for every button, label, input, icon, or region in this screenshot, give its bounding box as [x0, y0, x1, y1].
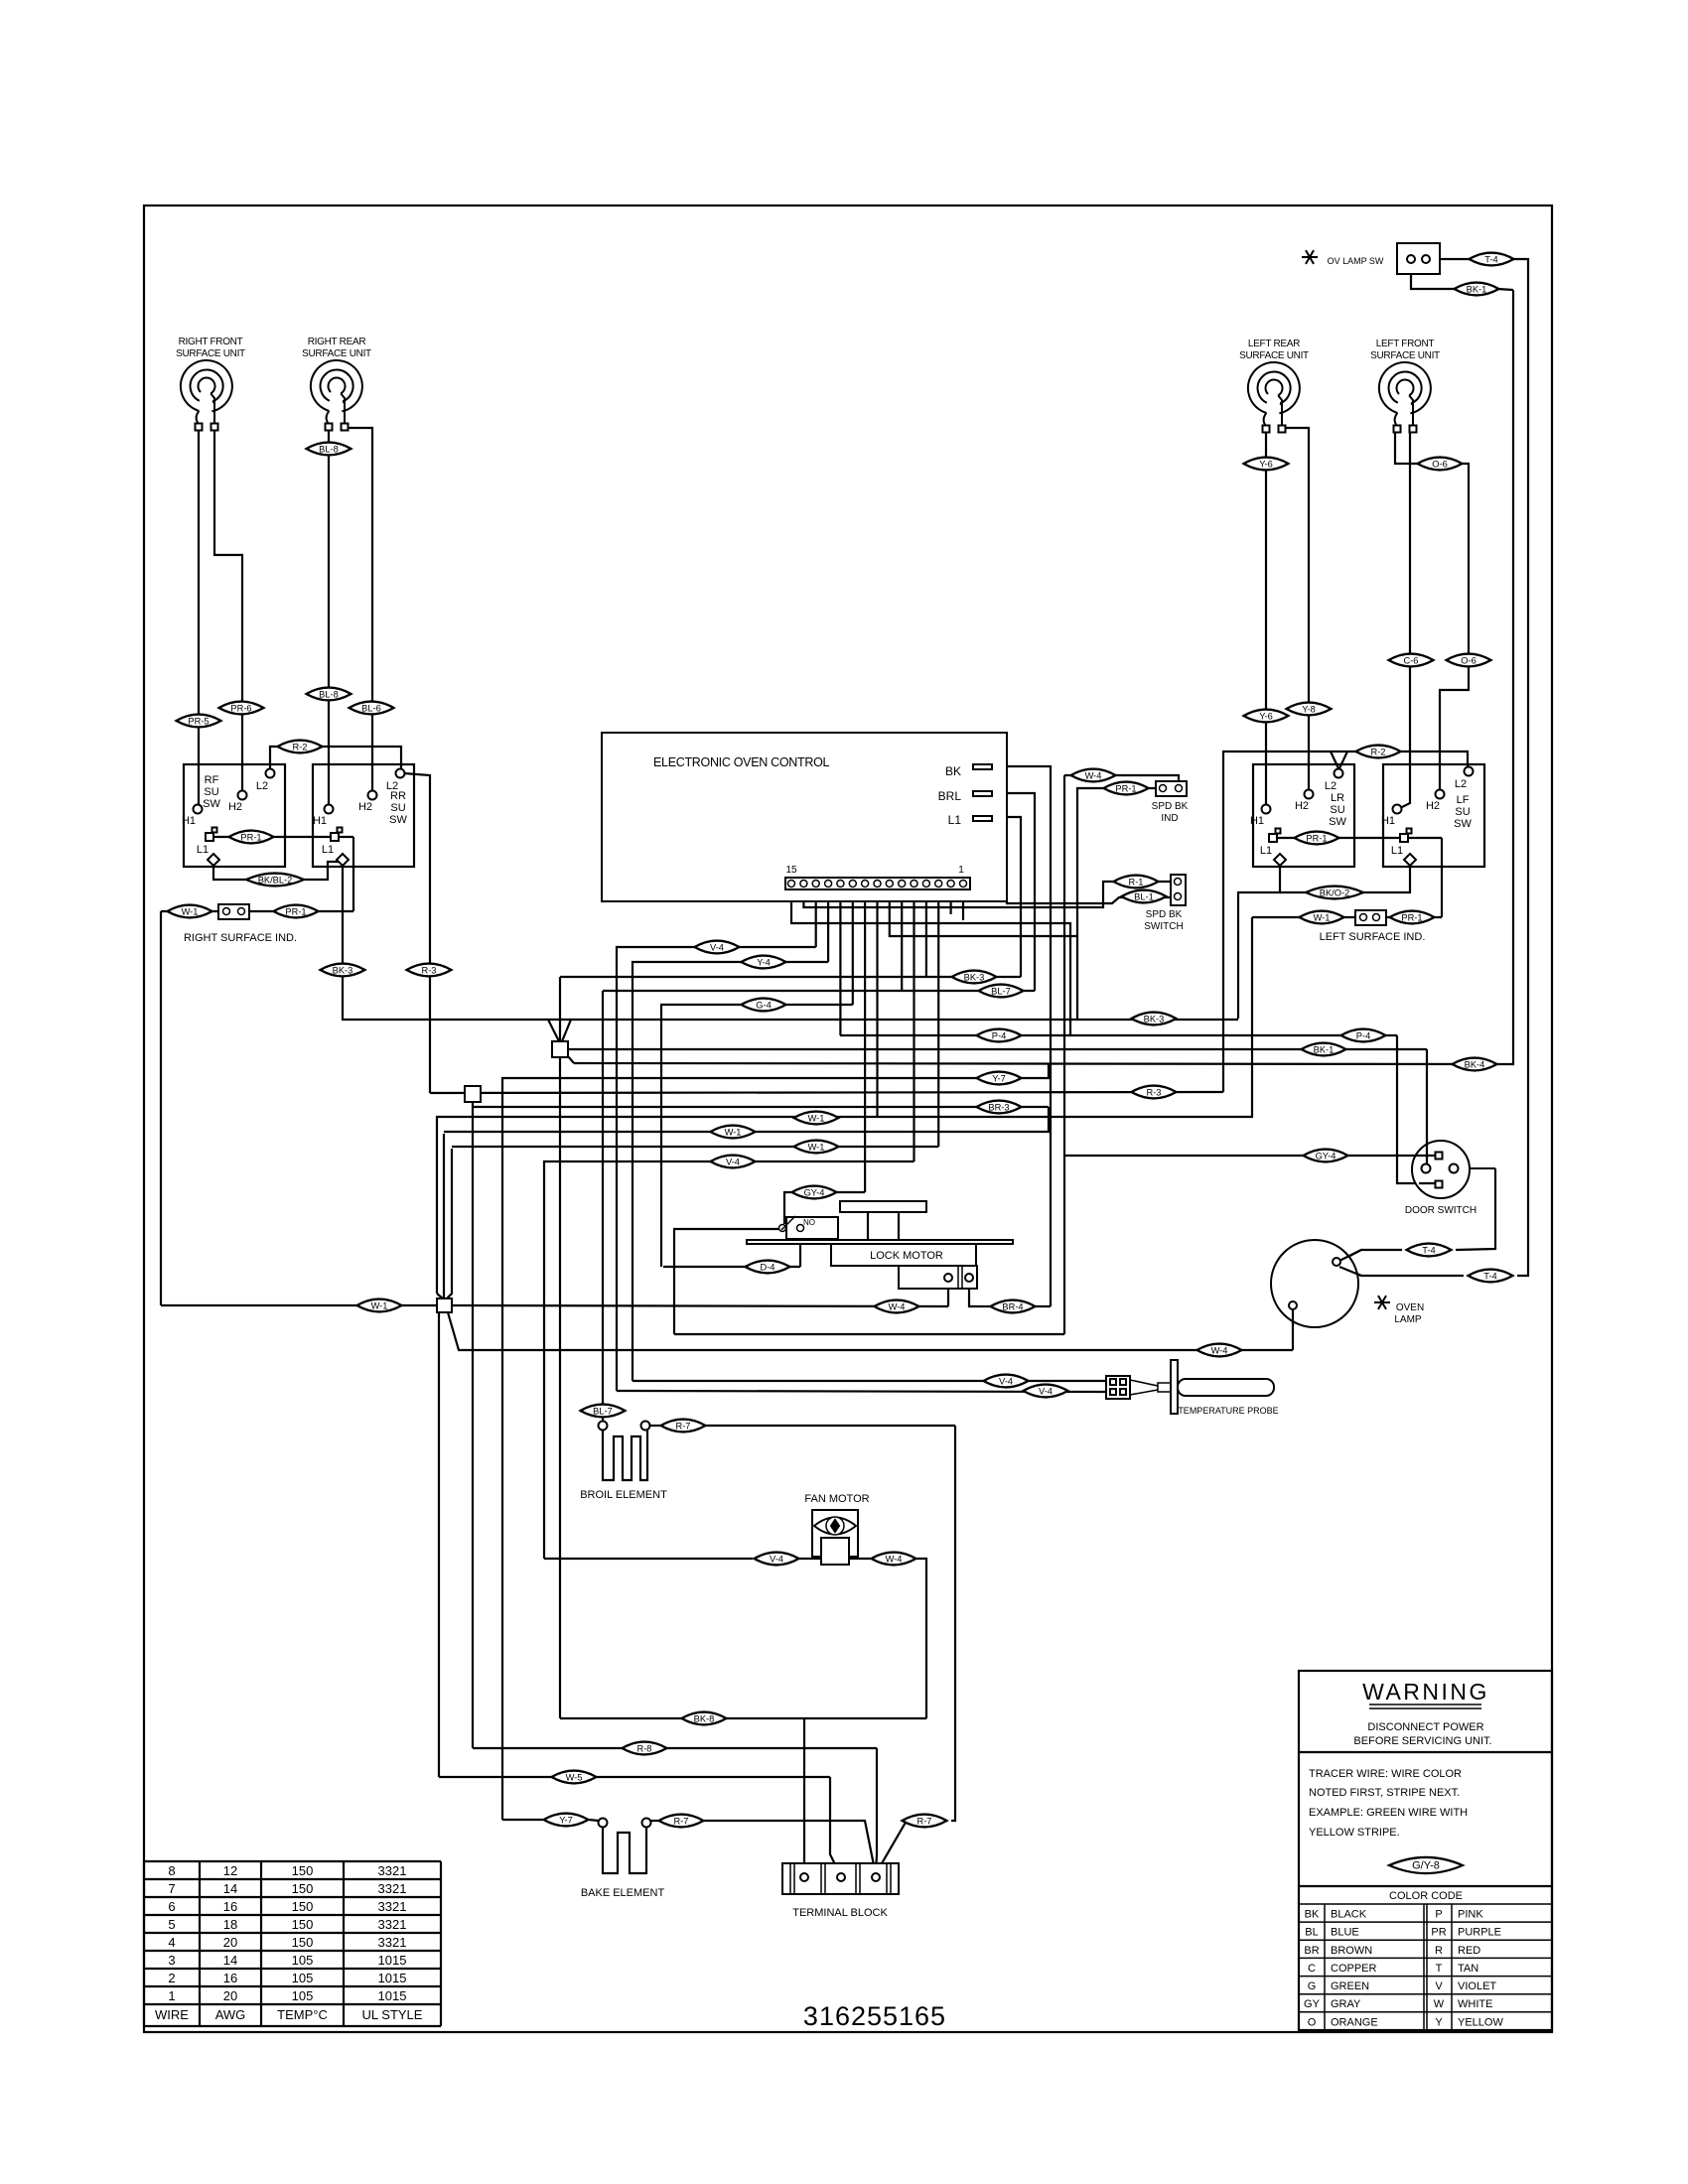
- svg-text:BROIL ELEMENT: BROIL ELEMENT: [580, 1489, 667, 1501]
- svg-text:BK-3: BK-3: [1144, 1015, 1165, 1024]
- svg-text:V-4: V-4: [1039, 1387, 1053, 1397]
- svg-text:TERMINAL BLOCK: TERMINAL BLOCK: [792, 1907, 888, 1919]
- svg-text:G-4: G-4: [756, 1001, 772, 1011]
- svg-text:NO: NO: [803, 1218, 815, 1227]
- svg-text:L2: L2: [1325, 780, 1336, 792]
- svg-text:R-7: R-7: [676, 1422, 691, 1432]
- svg-text:GRAY: GRAY: [1331, 1998, 1361, 2010]
- svg-text:R: R: [1435, 1945, 1443, 1957]
- svg-text:16: 16: [223, 1971, 237, 1985]
- svg-text:O-6: O-6: [1461, 656, 1477, 666]
- svg-text:PR: PR: [1431, 1927, 1446, 1939]
- svg-text:L2: L2: [256, 780, 268, 792]
- svg-text:BLACK: BLACK: [1331, 1909, 1367, 1921]
- svg-text:IND: IND: [1161, 813, 1178, 824]
- svg-text:BLUE: BLUE: [1331, 1927, 1359, 1939]
- svg-text:4: 4: [168, 1935, 175, 1950]
- svg-text:BK: BK: [1305, 1909, 1320, 1921]
- svg-text:W-1: W-1: [182, 907, 199, 917]
- svg-text:SW: SW: [203, 798, 220, 810]
- svg-text:PR-1: PR-1: [285, 907, 306, 917]
- svg-text:BK/O-2: BK/O-2: [1320, 888, 1349, 898]
- svg-text:SW: SW: [1329, 816, 1346, 828]
- svg-text:BL-7: BL-7: [991, 987, 1011, 997]
- svg-text:R-3: R-3: [422, 966, 437, 976]
- svg-text:BR: BR: [1304, 1945, 1319, 1957]
- svg-text:150: 150: [292, 1863, 314, 1878]
- svg-text:LOCK MOTOR: LOCK MOTOR: [870, 1250, 943, 1262]
- svg-text:H2: H2: [358, 801, 372, 813]
- svg-text:T-4: T-4: [1422, 1246, 1435, 1256]
- svg-text:V-4: V-4: [999, 1377, 1013, 1387]
- svg-text:W-1: W-1: [725, 1128, 742, 1138]
- svg-text:Y-8: Y-8: [1302, 705, 1316, 715]
- svg-text:L2: L2: [386, 780, 398, 792]
- svg-text:W-4: W-4: [889, 1302, 906, 1312]
- svg-text:15: 15: [785, 865, 797, 876]
- svg-text:V-4: V-4: [770, 1555, 783, 1565]
- svg-text:3321: 3321: [378, 1863, 407, 1878]
- svg-text:18: 18: [223, 1917, 237, 1932]
- svg-text:BEFORE SERVICING UNIT.: BEFORE SERVICING UNIT.: [1353, 1735, 1491, 1747]
- svg-text:Y-4: Y-4: [757, 958, 771, 968]
- svg-text:T: T: [1436, 1963, 1443, 1975]
- svg-text:150: 150: [292, 1917, 314, 1932]
- svg-text:14: 14: [223, 1953, 237, 1968]
- svg-text:PINK: PINK: [1458, 1909, 1483, 1921]
- svg-text:W-1: W-1: [808, 1143, 825, 1153]
- svg-text:RIGHT FRONT: RIGHT FRONT: [179, 337, 243, 347]
- svg-text:3321: 3321: [378, 1899, 407, 1914]
- svg-text:ORANGE: ORANGE: [1331, 2016, 1378, 2028]
- svg-text:EXAMPLE: GREEN WIRE WITH: EXAMPLE: GREEN WIRE WITH: [1309, 1807, 1468, 1819]
- svg-text:BK-3: BK-3: [333, 966, 353, 976]
- svg-text:O: O: [1308, 2016, 1317, 2028]
- svg-text:WARNING: WARNING: [1362, 1679, 1489, 1705]
- svg-text:BL-6: BL-6: [361, 704, 381, 714]
- svg-text:BL-1: BL-1: [1134, 892, 1154, 902]
- svg-text:SU: SU: [390, 802, 405, 814]
- svg-text:SURFACE UNIT: SURFACE UNIT: [176, 348, 245, 359]
- svg-text:SURFACE UNIT: SURFACE UNIT: [1370, 350, 1440, 361]
- svg-text:H1: H1: [1381, 815, 1395, 827]
- svg-text:L1: L1: [322, 844, 334, 856]
- svg-text:SU: SU: [1330, 804, 1344, 816]
- svg-text:1015: 1015: [378, 1988, 407, 2003]
- svg-text:Y-7: Y-7: [992, 1074, 1006, 1084]
- svg-text:H2: H2: [1426, 800, 1440, 812]
- svg-text:SW: SW: [389, 814, 407, 826]
- svg-text:T-4: T-4: [1484, 255, 1497, 265]
- svg-text:L1: L1: [197, 844, 209, 856]
- svg-text:G: G: [1308, 1980, 1317, 1992]
- svg-text:L2: L2: [1455, 778, 1467, 790]
- svg-text:150: 150: [292, 1899, 314, 1914]
- svg-text:Y-7: Y-7: [559, 1816, 573, 1826]
- svg-text:2: 2: [168, 1971, 175, 1985]
- svg-text:YELLOW STRIPE.: YELLOW STRIPE.: [1309, 1827, 1400, 1839]
- svg-text:150: 150: [292, 1881, 314, 1896]
- svg-text:OVEN: OVEN: [1396, 1302, 1424, 1313]
- svg-text:Y: Y: [1435, 2016, 1443, 2028]
- svg-text:L1: L1: [948, 813, 962, 827]
- svg-text:LF: LF: [1457, 794, 1470, 806]
- svg-text:SU: SU: [1455, 806, 1470, 818]
- svg-text:BRL: BRL: [938, 789, 962, 803]
- svg-text:BROWN: BROWN: [1331, 1945, 1372, 1957]
- svg-text:TEMPERATURE PROBE: TEMPERATURE PROBE: [1178, 1406, 1278, 1416]
- svg-text:NOTED FIRST, STRIPE NEXT.: NOTED FIRST, STRIPE NEXT.: [1309, 1787, 1460, 1799]
- svg-text:ELECTRONIC OVEN CONTROL: ELECTRONIC OVEN CONTROL: [653, 755, 829, 769]
- svg-text:W: W: [1434, 1998, 1445, 2010]
- svg-text:P-4: P-4: [992, 1031, 1006, 1041]
- svg-text:R-7: R-7: [674, 1817, 689, 1827]
- svg-text:R-3: R-3: [1147, 1088, 1162, 1098]
- svg-text:SU: SU: [204, 786, 218, 798]
- svg-text:C-6: C-6: [1404, 656, 1419, 666]
- svg-text:W-5: W-5: [566, 1773, 583, 1783]
- svg-text:H1: H1: [313, 815, 327, 827]
- svg-text:W-4: W-4: [1211, 1346, 1228, 1356]
- svg-text:C: C: [1308, 1963, 1316, 1975]
- svg-text:20: 20: [223, 1935, 237, 1950]
- svg-text:BK-3: BK-3: [964, 973, 985, 983]
- svg-text:PURPLE: PURPLE: [1458, 1927, 1501, 1939]
- svg-text:RIGHT REAR: RIGHT REAR: [308, 337, 366, 347]
- svg-text:DOOR SWITCH: DOOR SWITCH: [1405, 1205, 1477, 1216]
- svg-text:105: 105: [292, 1988, 314, 2003]
- svg-text:G/Y-8: G/Y-8: [1412, 1860, 1440, 1872]
- svg-text:SPD BK: SPD BK: [1146, 909, 1183, 920]
- svg-text:TRACER WIRE: WIRE COLOR: TRACER WIRE: WIRE COLOR: [1309, 1768, 1462, 1780]
- svg-text:TEMP°C: TEMP°C: [277, 2007, 328, 2022]
- svg-text:BK-1: BK-1: [1467, 285, 1487, 295]
- svg-text:R-1: R-1: [1129, 878, 1144, 887]
- svg-text:BK-4: BK-4: [1465, 1060, 1485, 1070]
- svg-text:R-7: R-7: [917, 1817, 932, 1827]
- svg-text:Y-6: Y-6: [1259, 460, 1273, 470]
- svg-text:1015: 1015: [378, 1953, 407, 1968]
- svg-text:BR-3: BR-3: [988, 1103, 1009, 1113]
- svg-text:BAKE ELEMENT: BAKE ELEMENT: [581, 1887, 665, 1899]
- svg-text:SWITCH: SWITCH: [1144, 921, 1183, 932]
- svg-text:BL-7: BL-7: [593, 1407, 613, 1417]
- svg-text:WHITE: WHITE: [1458, 1998, 1492, 2010]
- svg-text:DISCONNECT POWER: DISCONNECT POWER: [1367, 1721, 1483, 1733]
- svg-text:3321: 3321: [378, 1917, 407, 1932]
- svg-text:L1: L1: [1391, 845, 1403, 857]
- svg-text:H1: H1: [1250, 815, 1264, 827]
- svg-text:H1: H1: [182, 815, 196, 827]
- svg-text:LEFT SURFACE IND.: LEFT SURFACE IND.: [1320, 931, 1426, 943]
- svg-text:RED: RED: [1458, 1945, 1480, 1957]
- svg-text:W-4: W-4: [1085, 771, 1102, 781]
- svg-text:COPPER: COPPER: [1331, 1963, 1377, 1975]
- svg-text:H2: H2: [228, 801, 242, 813]
- svg-text:VIOLET: VIOLET: [1458, 1980, 1496, 1992]
- svg-text:W-4: W-4: [886, 1555, 903, 1565]
- svg-text:1: 1: [168, 1988, 175, 2003]
- svg-text:BK-8: BK-8: [694, 1714, 715, 1724]
- svg-text:O-6: O-6: [1432, 460, 1448, 470]
- svg-text:PR-1: PR-1: [1401, 913, 1422, 923]
- svg-text:1015: 1015: [378, 1971, 407, 1985]
- svg-text:PR-1: PR-1: [1306, 834, 1327, 844]
- svg-text:BL: BL: [1305, 1927, 1318, 1939]
- svg-text:6: 6: [168, 1899, 175, 1914]
- svg-text:V-4: V-4: [710, 943, 724, 953]
- svg-text:R-8: R-8: [637, 1744, 652, 1754]
- svg-text:BL-8: BL-8: [319, 445, 339, 455]
- svg-text:COLOR CODE: COLOR CODE: [1389, 1890, 1463, 1902]
- svg-text:OV LAMP SW: OV LAMP SW: [1328, 256, 1384, 266]
- svg-text:BR-4: BR-4: [1002, 1302, 1023, 1312]
- svg-text:3321: 3321: [378, 1881, 407, 1896]
- svg-text:7: 7: [168, 1881, 175, 1896]
- svg-text:LR: LR: [1331, 792, 1344, 804]
- svg-text:20: 20: [223, 1988, 237, 2003]
- svg-text:P-4: P-4: [1356, 1031, 1370, 1041]
- svg-text:PR-6: PR-6: [230, 704, 251, 714]
- svg-text:BK/BL-2: BK/BL-2: [258, 876, 293, 886]
- svg-text:SURFACE UNIT: SURFACE UNIT: [1239, 350, 1309, 361]
- svg-text:3321: 3321: [378, 1935, 407, 1950]
- svg-text:LAMP: LAMP: [1394, 1314, 1422, 1325]
- svg-text:RF: RF: [205, 774, 219, 786]
- svg-text:LEFT REAR: LEFT REAR: [1248, 339, 1300, 349]
- svg-text:PR-5: PR-5: [188, 717, 209, 727]
- svg-text:W-1: W-1: [371, 1301, 388, 1311]
- svg-text:AWG: AWG: [215, 2007, 246, 2022]
- svg-text:5: 5: [168, 1917, 175, 1932]
- svg-text:105: 105: [292, 1953, 314, 1968]
- svg-text:105: 105: [292, 1971, 314, 1985]
- svg-text:TAN: TAN: [1458, 1963, 1478, 1975]
- svg-text:UL STYLE: UL STYLE: [362, 2007, 423, 2022]
- svg-text:GY-4: GY-4: [804, 1188, 825, 1198]
- svg-text:LEFT FRONT: LEFT FRONT: [1376, 339, 1435, 349]
- svg-text:H2: H2: [1295, 800, 1309, 812]
- svg-text:Y-6: Y-6: [1259, 712, 1273, 722]
- svg-text:GY-4: GY-4: [1316, 1152, 1336, 1161]
- svg-text:W-1: W-1: [808, 1114, 825, 1124]
- svg-text:BK-1: BK-1: [1314, 1045, 1335, 1055]
- svg-text:SW: SW: [1454, 818, 1472, 830]
- svg-text:316255165: 316255165: [803, 2001, 946, 2031]
- svg-text:R-2: R-2: [1371, 748, 1386, 757]
- svg-text:V-4: V-4: [726, 1158, 740, 1167]
- svg-text:RIGHT SURFACE IND.: RIGHT SURFACE IND.: [184, 932, 297, 944]
- svg-text:8: 8: [168, 1863, 175, 1878]
- svg-text:14: 14: [223, 1881, 237, 1896]
- svg-text:W-1: W-1: [1314, 913, 1331, 923]
- svg-text:WIRE: WIRE: [155, 2007, 189, 2022]
- svg-text:BL-8: BL-8: [319, 690, 339, 700]
- svg-text:1: 1: [958, 865, 964, 876]
- svg-text:GREEN: GREEN: [1331, 1980, 1369, 1992]
- svg-text:GY: GY: [1304, 1998, 1321, 2010]
- svg-text:T-4: T-4: [1483, 1272, 1496, 1282]
- svg-text:PR-1: PR-1: [1115, 784, 1136, 794]
- svg-text:V: V: [1435, 1980, 1443, 1992]
- svg-text:150: 150: [292, 1935, 314, 1950]
- svg-text:SURFACE UNIT: SURFACE UNIT: [302, 348, 371, 359]
- svg-text:SPD BK: SPD BK: [1152, 801, 1189, 812]
- svg-text:FAN MOTOR: FAN MOTOR: [804, 1493, 869, 1505]
- svg-text:PR-1: PR-1: [240, 833, 261, 843]
- svg-text:16: 16: [223, 1899, 237, 1914]
- svg-text:P: P: [1435, 1909, 1442, 1921]
- svg-text:12: 12: [223, 1863, 237, 1878]
- svg-text:YELLOW: YELLOW: [1458, 2016, 1503, 2028]
- svg-text:BK: BK: [945, 764, 961, 778]
- svg-text:R-2: R-2: [293, 743, 308, 752]
- svg-text:3: 3: [168, 1953, 175, 1968]
- svg-text:D-4: D-4: [761, 1263, 775, 1273]
- svg-text:L1: L1: [1260, 845, 1272, 857]
